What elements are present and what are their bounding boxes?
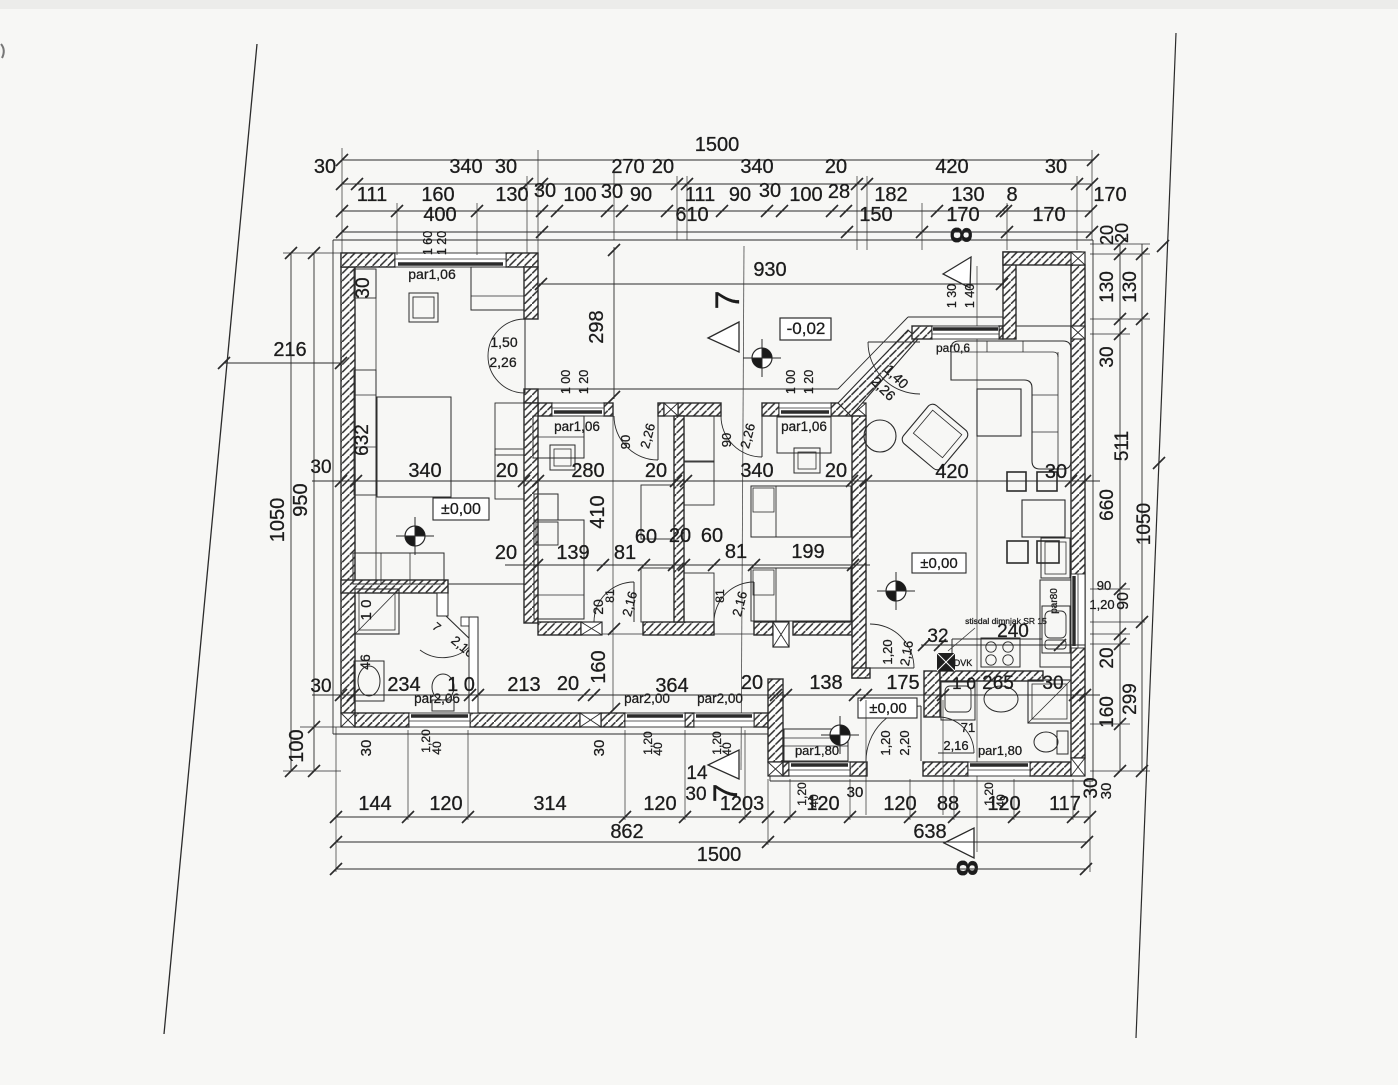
svg-text:280: 280 (571, 460, 604, 482)
svg-text:30: 30 (1045, 156, 1067, 178)
left ext lines (283, 253, 341, 771)
washbasin left bath (354, 661, 384, 701)
pier bay junction (1071, 326, 1085, 339)
svg-text:28: 28 (828, 181, 850, 203)
svg-text:81: 81 (725, 541, 747, 563)
svg-text:30: 30 (310, 457, 331, 478)
svg-text:2,20: 2,20 (897, 730, 912, 755)
window spec 1 60 1 20 (421, 231, 449, 255)
wall entrance north (912, 326, 1003, 339)
wall wc niche (469, 617, 478, 713)
pier middle top wall (664, 403, 678, 416)
svg-text:8: 8 (1006, 184, 1017, 206)
shelves left room southeast (495, 403, 524, 499)
svg-text:1 0: 1 0 (447, 674, 475, 696)
svg-text:81: 81 (603, 589, 617, 603)
svg-text:30: 30 (759, 180, 781, 202)
wall step west (768, 679, 783, 762)
window spec 1 00 1 20 bedroom2 (784, 370, 816, 394)
level box left room (433, 498, 489, 520)
svg-text:364: 364 (655, 675, 688, 697)
right small labels 90 120 (1089, 578, 1114, 612)
svg-text:30: 30 (591, 740, 608, 757)
dining table (1022, 500, 1065, 537)
dim chain y565 (495, 525, 870, 571)
pier top-left corner (341, 253, 355, 267)
svg-text:1050: 1050 (1134, 503, 1155, 545)
svg-text:1500: 1500 (697, 844, 742, 866)
leader dimnjak (948, 628, 975, 651)
svg-text:1 30: 1 30 (945, 284, 959, 308)
svg-text:298: 298 (586, 310, 608, 343)
wall left exterior (341, 267, 355, 713)
level marker left room (405, 526, 425, 546)
svg-text:30: 30 (1045, 461, 1067, 483)
svg-text:144: 144 (358, 793, 391, 815)
dim row C top (336, 184, 1127, 217)
dim row F bottom (330, 793, 1096, 823)
level marker living (886, 581, 906, 601)
svg-text:20: 20 (825, 460, 847, 482)
roof eaves outline (333, 240, 1093, 781)
dim chain mid y481 (312, 460, 1100, 487)
svg-text:40: 40 (651, 742, 665, 756)
wall bay north (1003, 252, 1081, 265)
svg-text:632: 632 (352, 424, 373, 456)
wall bay west (1003, 252, 1016, 339)
shower left bath (355, 589, 399, 634)
svg-text:213: 213 (507, 674, 540, 696)
bidet oval right bath (984, 686, 1018, 712)
svg-text:30: 30 (358, 740, 375, 757)
dim 216 left (218, 339, 347, 369)
section line 8-8 (976, 266, 978, 852)
pier bay northeast (1071, 252, 1085, 265)
svg-text:420: 420 (935, 461, 968, 483)
dim row D top (336, 204, 1098, 238)
svg-text:30: 30 (601, 181, 623, 203)
svg-text:111: 111 (685, 184, 715, 206)
svg-text:130: 130 (1120, 271, 1141, 303)
svg-text:1 40: 1 40 (963, 284, 977, 308)
desk bedroom2 (777, 417, 831, 453)
svg-text:1203: 1203 (720, 793, 765, 815)
wall niche between bedrooms (674, 416, 684, 622)
svg-text:20: 20 (741, 672, 763, 694)
svg-text:81: 81 (713, 589, 727, 603)
sofa L-shape (951, 341, 1071, 469)
section marker 8 top (943, 227, 977, 288)
wall bedroom2 east (852, 416, 866, 678)
svg-text:30: 30 (310, 676, 331, 697)
svg-text:150: 150 (859, 204, 892, 226)
window A par1,06 top-left (395, 253, 506, 267)
wall bath partition (341, 580, 448, 593)
window C par1,06 bedroom2 (779, 403, 831, 416)
svg-text:30: 30 (314, 156, 336, 178)
dim chain right inner (1081, 225, 1133, 799)
svg-text:340: 340 (449, 156, 482, 178)
svg-text:20: 20 (652, 156, 674, 178)
svg-text:100: 100 (286, 729, 308, 762)
svg-text:40: 40 (994, 794, 1008, 808)
eaves line middle wing (537, 317, 1003, 389)
svg-text:130: 130 (495, 184, 528, 206)
door bedroom1 south 81 (594, 582, 634, 622)
svg-text:30: 30 (534, 180, 556, 202)
armchair living (900, 402, 970, 472)
bath partition step (437, 593, 448, 616)
window W1 par2,06 bath (409, 713, 470, 727)
svg-text:1 20: 1 20 (435, 231, 449, 255)
dining chairs (1007, 472, 1059, 563)
wall bottom left block (355, 713, 768, 727)
level box hall (858, 698, 917, 718)
dim 950 100 left (286, 247, 320, 777)
door bedroom2 north 90 (721, 416, 762, 457)
svg-text:314: 314 (533, 793, 566, 815)
washbasin right bath (941, 682, 975, 720)
bottom ext lines (336, 700, 1090, 872)
svg-text:170: 170 (1032, 204, 1065, 226)
svg-text:216: 216 (273, 339, 306, 361)
svg-text:20: 20 (825, 156, 847, 178)
svg-text:1 20: 1 20 (577, 370, 591, 394)
svg-text:1 0: 1 0 (952, 674, 976, 693)
svg-text:160: 160 (588, 650, 610, 683)
dim line 410 (612, 416, 614, 711)
svg-text:117: 117 (1049, 793, 1081, 815)
svg-text:14: 14 (686, 763, 708, 784)
svg-text:930: 930 (753, 259, 786, 281)
section line 7-7 (741, 246, 744, 770)
level box terrace -0,02 (780, 318, 831, 340)
kitchen counter (952, 580, 1071, 671)
svg-text:par80: par80 (1049, 588, 1060, 614)
svg-text:par1,80: par1,80 (795, 743, 839, 758)
svg-text:610: 610 (675, 204, 708, 226)
wc niche notch (461, 617, 469, 626)
svg-text:20: 20 (645, 460, 667, 482)
round table living (864, 420, 896, 452)
svg-text:139: 139 (556, 542, 589, 564)
window W4 par1,80 (789, 762, 850, 776)
svg-text:46: 46 (357, 654, 373, 670)
shower right bath (1028, 680, 1071, 723)
svg-text:71: 71 (961, 720, 975, 735)
svg-text:90: 90 (618, 435, 633, 449)
dim row H bottom (330, 844, 1092, 875)
fridge kitchen (1041, 538, 1070, 578)
svg-text:-0,02: -0,02 (787, 319, 826, 338)
nightstand bedroom1 (534, 494, 558, 520)
level marker hall (830, 725, 850, 745)
svg-text:160: 160 (1097, 696, 1118, 728)
svg-text:511: 511 (1112, 431, 1133, 461)
wall kitchen-bath partition (924, 671, 1043, 717)
svg-text:20: 20 (495, 542, 517, 564)
cabinet left room corner (354, 269, 376, 298)
svg-text:±0,00: ±0,00 (441, 501, 481, 518)
svg-text:±0,00: ±0,00 (869, 700, 906, 717)
svg-text:340: 340 (740, 460, 773, 482)
svg-text:90: 90 (729, 184, 751, 206)
chair bedroom1 (550, 445, 575, 470)
wall top of left room (341, 253, 538, 267)
pier bottom-right corner (1071, 758, 1085, 776)
svg-text:DVK: DVK (954, 658, 973, 668)
pier bottom wall (580, 713, 601, 727)
svg-text:20: 20 (1097, 647, 1118, 668)
table under window A (409, 293, 438, 322)
svg-text:270: 270 (611, 156, 644, 178)
svg-text:30: 30 (1098, 783, 1115, 800)
kitchen sink (1042, 606, 1070, 653)
dim row 1500 top (336, 134, 1099, 166)
svg-text:410: 410 (587, 495, 609, 528)
window E entrance glazing (932, 326, 999, 339)
svg-text:1 00: 1 00 (559, 370, 573, 394)
svg-text:88: 88 (937, 793, 959, 815)
svg-text:20: 20 (557, 673, 579, 695)
svg-text:2,16: 2,16 (943, 738, 968, 753)
property boundary line right (1136, 33, 1176, 1038)
window W2 par2,00 (625, 713, 685, 727)
wall bottom right block (783, 762, 1071, 776)
section marker 7 top (708, 291, 747, 352)
svg-text:1,20: 1,20 (878, 730, 893, 755)
svg-text:1 20: 1 20 (802, 370, 816, 394)
svg-text:175: 175 (886, 672, 919, 694)
svg-text:par1,06: par1,06 (408, 266, 456, 282)
svg-text:40: 40 (720, 742, 734, 756)
threshold lines corridor doors (602, 633, 754, 635)
svg-text:1 00: 1 00 (784, 370, 798, 394)
svg-text:240: 240 (997, 621, 1029, 642)
door bath diagonal (420, 616, 474, 658)
svg-text:120: 120 (429, 793, 462, 815)
svg-text:340: 340 (408, 460, 441, 482)
svg-text:120: 120 (643, 793, 676, 815)
cupboard left room top (471, 267, 524, 310)
svg-text:20: 20 (1112, 223, 1132, 243)
window W5 par1,80 (968, 762, 1030, 776)
wardrobe strip left room (354, 370, 376, 495)
door living 1,20 (870, 624, 914, 668)
svg-text:60: 60 (701, 525, 723, 547)
window spec 1 30 1 40 entrance (945, 284, 977, 308)
svg-text:30: 30 (353, 277, 374, 298)
window W3 par2,00 (694, 713, 754, 727)
pier step corner (768, 762, 783, 776)
svg-text:420: 420 (935, 156, 968, 178)
svg-text:299: 299 (1120, 683, 1141, 715)
svg-text:90: 90 (1097, 578, 1111, 593)
bed bedroom2 b (751, 568, 851, 621)
svg-text:32: 32 (927, 626, 948, 647)
svg-text:234: 234 (387, 674, 420, 696)
window D par80 right wall (1071, 574, 1085, 648)
svg-text:7: 7 (709, 291, 747, 310)
level marker terrace (752, 348, 772, 368)
svg-text:130: 130 (951, 184, 984, 206)
svg-text:1500: 1500 (695, 134, 740, 156)
pier bottom-left corner (341, 713, 355, 727)
bottom small labels row right (795, 782, 1115, 808)
dim row G bottom (330, 821, 1093, 848)
closet shelves niche (641, 416, 714, 622)
coffee table living (977, 389, 1021, 436)
svg-text:1 0: 1 0 (358, 600, 375, 621)
svg-text:90: 90 (630, 184, 652, 206)
svg-text:950: 950 (290, 483, 312, 516)
dim line 632 (375, 269, 377, 584)
section marker 7 bottom (685, 750, 745, 805)
svg-text:100: 100 (563, 184, 596, 206)
dim 160 corridor ticks (608, 623, 620, 715)
dim 1050 left (267, 247, 297, 777)
kitchen stove (981, 638, 1020, 667)
svg-text:170: 170 (946, 204, 979, 226)
wall top middle wing (538, 403, 851, 416)
dim chain y695 (312, 672, 1100, 701)
wall living west stub end (852, 668, 870, 678)
property boundary line left (164, 44, 257, 1034)
svg-text:265: 265 (982, 673, 1014, 694)
svg-text:par1,80: par1,80 (978, 743, 1022, 758)
dim 930 terrace (535, 259, 1008, 290)
scan top edge shade (0, 0, 1398, 9)
wall right exterior (1071, 265, 1085, 758)
svg-text:60: 60 (635, 526, 657, 548)
svg-text:638: 638 (913, 821, 946, 843)
svg-text:par2,00: par2,00 (697, 691, 743, 706)
bed left room (377, 397, 451, 497)
dim chain right outer (1112, 223, 1155, 777)
pier bedroom2 top-right (851, 403, 866, 416)
svg-text:8: 8 (950, 860, 983, 877)
cabinet hall (784, 729, 848, 761)
svg-text:1 60: 1 60 (421, 231, 435, 255)
svg-text:111: 111 (357, 184, 387, 206)
svg-text:138: 138 (809, 672, 842, 694)
bed bedroom2 a (751, 486, 851, 537)
svg-text:40: 40 (430, 741, 444, 755)
svg-text:340: 340 (740, 156, 773, 178)
wall diagonal entrance (838, 330, 918, 416)
svg-text:30: 30 (1097, 346, 1118, 367)
svg-text:90: 90 (1115, 592, 1132, 610)
door bedroom1 north 90 (614, 416, 658, 460)
dresser left room south (353, 553, 444, 584)
door back entrance 1,20 (866, 706, 921, 761)
svg-text:90: 90 (719, 433, 734, 447)
right ext lines (1090, 244, 1150, 771)
bay inner outline (1016, 265, 1071, 326)
svg-text:199: 199 (791, 541, 824, 563)
svg-text:100: 100 (789, 184, 822, 206)
svg-text:1,20: 1,20 (1089, 597, 1114, 612)
wall bedroom1 west (524, 403, 538, 623)
svg-text:120: 120 (883, 793, 916, 815)
wc right bath (1034, 731, 1068, 754)
chair bedroom2 (794, 448, 820, 473)
svg-text:862: 862 (610, 821, 643, 843)
wall bedrooms south (538, 622, 852, 635)
svg-text:par1,06: par1,06 (781, 419, 827, 434)
ticks on boundary line right (1153, 240, 1169, 469)
svg-text:81: 81 (614, 542, 636, 564)
svg-text:170: 170 (1093, 184, 1126, 206)
door bedroom2 south 81 (714, 582, 754, 622)
svg-text:40: 40 (807, 794, 821, 808)
svg-text:160: 160 (421, 184, 454, 206)
svg-text:1,20: 1,20 (880, 639, 895, 664)
svg-text:2,26: 2,26 (489, 354, 516, 370)
dim 298 terrace (586, 244, 620, 403)
svg-text:30: 30 (685, 784, 706, 805)
bed bedroom1 (534, 520, 584, 619)
bottom small labels row left (358, 729, 734, 756)
door entrance 1,40 on diagonal (868, 342, 920, 394)
svg-text:660: 660 (1097, 489, 1118, 521)
svg-text:8: 8 (944, 227, 977, 244)
svg-text:130: 130 (1097, 271, 1118, 303)
window B par1,06 bedroom1 (552, 403, 604, 416)
desk bedroom1 (533, 416, 584, 458)
wall left-room east (524, 267, 538, 403)
svg-text:30: 30 (847, 784, 864, 801)
svg-text:20: 20 (669, 525, 691, 547)
svg-text:20: 20 (496, 460, 518, 482)
dim row C raised 30s (534, 180, 850, 203)
chimney block (937, 653, 955, 671)
door left-room french 1,50 (488, 319, 525, 393)
wc left bath (432, 674, 454, 711)
line left room south edge (448, 583, 524, 585)
pier bedrooms south b (773, 622, 789, 647)
level box living (912, 553, 966, 573)
dim line kitchen 32-240 (918, 639, 1085, 651)
svg-text:1050: 1050 (267, 498, 289, 543)
door bath right 71 (938, 717, 974, 753)
svg-text:par1,06: par1,06 (554, 419, 600, 434)
pier bedrooms south a (581, 622, 602, 635)
svg-text:1,50: 1,50 (490, 334, 517, 350)
section marker 8 bottom (944, 828, 983, 876)
svg-text:400: 400 (423, 204, 456, 226)
svg-text:30: 30 (495, 156, 517, 178)
dim row B top (314, 156, 1098, 190)
window spec 1 00 1 20 bedroom1 (559, 370, 591, 394)
svg-text:30: 30 (1042, 673, 1063, 694)
scan speck left edge (1, 44, 4, 58)
svg-text:182: 182 (874, 184, 907, 206)
extension lines top (342, 148, 1092, 255)
svg-text:±0,00: ±0,00 (920, 555, 957, 572)
